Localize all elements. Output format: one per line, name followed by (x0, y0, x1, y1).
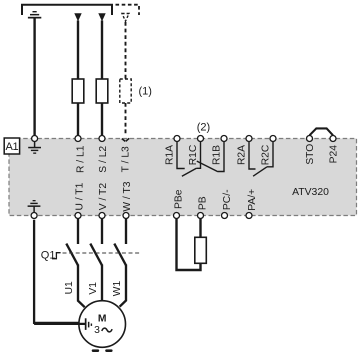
svg-text:STO: STO (305, 144, 316, 165)
svg-text:W / T3: W / T3 (122, 181, 133, 211)
svg-text:T / L3: T / L3 (121, 146, 132, 172)
svg-text:(1): (1) (138, 86, 151, 98)
svg-text:PA/+: PA/+ (247, 189, 258, 211)
svg-text:M: M (98, 313, 107, 324)
svg-text:U / T1: U / T1 (74, 182, 85, 210)
svg-text:S / L2: S / L2 (98, 146, 109, 173)
svg-text:Q1: Q1 (41, 249, 56, 261)
svg-text:(2): (2) (197, 121, 210, 133)
svg-text:A1: A1 (5, 141, 18, 153)
svg-text:PB: PB (197, 196, 208, 210)
svg-text:W1: W1 (112, 281, 123, 297)
svg-text:R2A: R2A (237, 145, 248, 165)
svg-text:R1C: R1C (188, 144, 199, 165)
svg-text:R / L1: R / L1 (75, 145, 86, 173)
svg-text:V1: V1 (88, 282, 99, 295)
svg-text:R1B: R1B (211, 145, 222, 165)
svg-text:U1: U1 (64, 281, 75, 294)
svg-text:V / T2: V / T2 (98, 183, 109, 211)
svg-text:PBe: PBe (174, 189, 185, 209)
svg-text:R2C: R2C (260, 144, 271, 165)
svg-text:3: 3 (94, 325, 100, 336)
svg-text:PC/-: PC/- (222, 189, 233, 210)
svg-text:ATV320: ATV320 (292, 187, 329, 198)
svg-text:P24: P24 (329, 145, 340, 164)
svg-text:R1A: R1A (164, 145, 175, 165)
